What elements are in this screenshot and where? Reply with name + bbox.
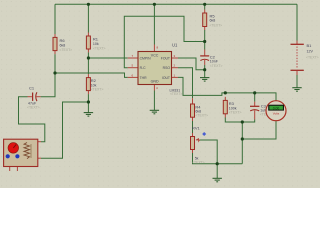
battery B1 [291,41,319,76]
wire ground drop to RV1 node [217,163,242,165]
svg-text:6k8: 6k8 [60,43,66,47]
wire R3 bottom to ground drop [225,118,242,123]
wire U1 pin IOUT to output bus [178,77,276,100]
svg-text:<TEXT>: <TEXT> [306,55,319,59]
resistor R2 [86,74,103,94]
ground (battery) [292,88,301,92]
svg-text:<TEXT>: <TEXT> [91,88,104,92]
svg-text:0.00: 0.00 [273,106,280,110]
wire U1 pin R-C up over to R5/C2 node [124,16,204,67]
wire rail to R1 top [87,4,89,32]
wire rail to U1 VCC [153,4,155,44]
svg-text:<TEXT>: <TEXT> [210,23,223,27]
wire top power rail [55,3,297,5]
svg-text:RV1: RV1 [192,126,200,131]
wire node B to R2 top [87,58,89,74]
wire RV1 node to ground [216,164,218,179]
wire C1 left to LDR pin 1 [19,97,45,142]
svg-text:RSO: RSO [163,66,171,70]
capacitor C3 [250,102,272,120]
LDR (torch) interactive component [4,139,41,171]
svg-text:R5: R5 [210,13,216,18]
resistor R6 [53,34,72,54]
wire rail to battery B1 [296,4,298,40]
wire LDR pin 2 to R2 bottom node [41,102,88,158]
svg-text:12V: 12V [307,50,314,54]
svg-text:R3: R3 [229,101,235,106]
svg-text:B1: B1 [307,43,313,48]
svg-text:6k8: 6k8 [210,19,216,23]
resistor R1 [86,33,105,53]
wire R6 bottom to node A [54,54,56,73]
ground (RV1 network) [213,178,222,182]
wire RV1 wiper to node [200,140,218,164]
svg-text:<TEXT>: <TEXT> [192,160,205,164]
svg-text:R1: R1 [93,36,99,41]
svg-text:<TEXT>: <TEXT> [170,92,182,96]
svg-text:10k: 10k [93,42,99,46]
svg-text:<TEXT>: <TEXT> [229,110,242,114]
capacitor C1 [27,86,41,110]
wire battery minus to ground [296,75,298,88]
junction node dots [53,3,256,166]
svg-text:<TEXT>: <TEXT> [210,64,223,68]
resistor R5 [203,10,222,31]
svg-text:IOUT: IOUT [162,76,170,80]
resistor R3 [223,97,241,118]
wire rail to R5 top [204,4,206,9]
svg-text:R6: R6 [60,38,66,43]
svg-text:U1: U1 [172,43,178,48]
wire C2 bottom to ground [204,65,206,78]
potentiometer RV1 [191,126,207,165]
voltmeter [266,101,286,121]
wire U1 pin FOUT to C2 bottom node [178,58,205,70]
capacitor C2 [200,50,222,68]
wire C3 top branch [254,93,256,102]
wire rail to R6 top [54,4,56,34]
svg-text:Volts: Volts [273,111,280,115]
svg-text:C1: C1 [29,86,35,91]
ground (under R2) [84,113,93,117]
svg-text:<TEXT>: <TEXT> [27,106,40,110]
wire node A down to C1 right [41,73,55,97]
svg-text:FOUT: FOUT [161,57,170,61]
wire R5 bottom to C2 top [204,30,206,50]
wire U1 pin GND to ground [153,91,155,111]
wire R1 bottom to node B [87,52,89,58]
wire ground drop vertical [241,122,243,164]
wire node A to U1 pin THR [55,73,128,77]
svg-text:VCC: VCC [151,53,159,57]
svg-text:<TEXT>: <TEXT> [195,113,208,117]
wire U1 pin RSO to R4 top [178,68,193,99]
resistor R4 [191,98,209,121]
op-amp U1 LM331 [128,43,183,96]
svg-text:THR: THR [140,76,148,80]
wire R4 bottom to RV1 top [192,121,194,133]
svg-text:CMPIN: CMPIN [140,57,151,61]
wire node B to U1 pin CMPIN [88,57,127,59]
svg-text:R-C: R-C [140,66,147,70]
wire voltmeter bottom return [242,121,276,139]
svg-text:GND: GND [151,80,159,84]
wire RV1 bottom to node [193,153,218,164]
svg-text:<TEXT>: <TEXT> [60,48,73,52]
svg-text:<TEXT>: <TEXT> [93,46,106,50]
wire R2 bottom to ground node [87,94,89,113]
ground (under U1 GND) [150,110,159,114]
wire C3 bottom to ground drop [242,120,254,123]
ground (under C2) [200,78,209,82]
